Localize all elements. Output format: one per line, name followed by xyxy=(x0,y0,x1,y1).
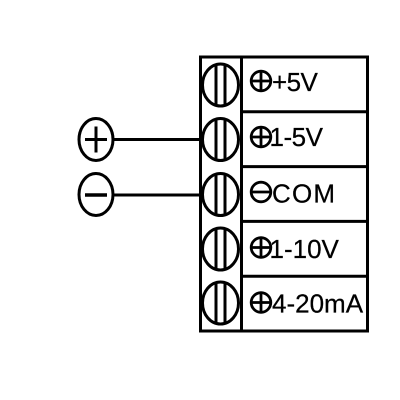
svg-text:+5V: +5V xyxy=(272,67,318,97)
svg-text:1-10V: 1-10V xyxy=(270,234,340,264)
svg-text:1-5V: 1-5V xyxy=(270,122,324,152)
svg-text:4-20mA: 4-20mA xyxy=(272,289,364,319)
svg-text:COM: COM xyxy=(272,179,336,209)
